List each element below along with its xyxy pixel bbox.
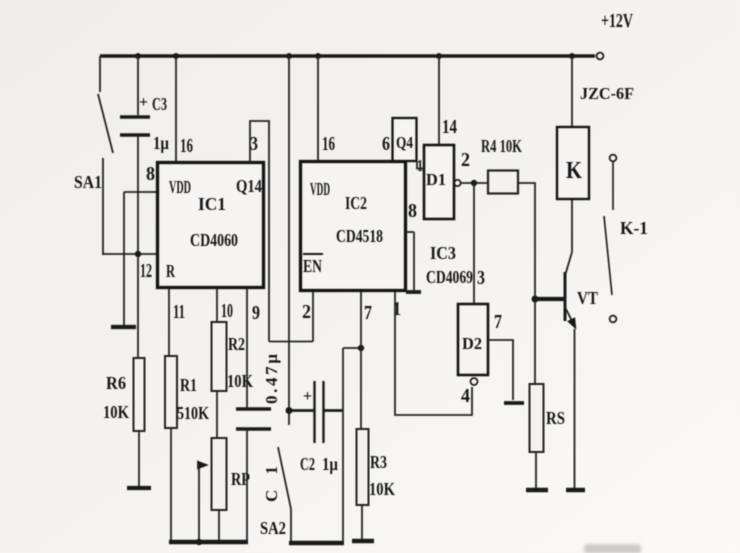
wire IC2 pin 7	[361, 291, 372, 429]
ground D2 pin7	[504, 401, 524, 405]
op-amp IC2 CD4518 box	[301, 162, 406, 291]
svg-text:10: 10	[221, 300, 233, 322]
transistor VT	[535, 199, 598, 488]
svg-text:R2: R2	[228, 334, 245, 354]
svg-text:R: R	[166, 261, 176, 281]
label IC3 CD4069	[426, 243, 473, 287]
wire R2 to RP	[216, 391, 218, 438]
svg-text:R6: R6	[106, 373, 126, 393]
resistor R5	[530, 384, 566, 452]
wire IC2 pin 8 to ground	[406, 200, 417, 290]
wire IC1 pin 8 to ground	[124, 163, 157, 326]
wire D2 pin 7 to ground	[488, 311, 513, 400]
resistor R6 10K	[103, 358, 145, 431]
svg-text:SA1: SA1	[74, 172, 102, 192]
wire IC1 pin 10	[217, 288, 233, 322]
svg-text:C3: C3	[152, 94, 167, 114]
svg-text:D2: D2	[462, 334, 482, 353]
svg-text:+: +	[303, 388, 312, 405]
wire R6 to ground	[138, 431, 140, 486]
svg-text:2: 2	[302, 301, 311, 323]
svg-text:IC2: IC2	[345, 193, 367, 213]
wire IC1 pin 16 VDD	[176, 56, 193, 162]
svg-text:Q4: Q4	[396, 133, 413, 152]
svg-text:1: 1	[393, 298, 401, 320]
svg-text:7: 7	[494, 311, 502, 333]
wire D1 out pin 2	[461, 149, 488, 186]
wire Q4 to D1 pin 1	[417, 156, 424, 175]
resistor R4 10K	[481, 136, 522, 194]
svg-text:D1: D1	[426, 170, 446, 189]
wire D1 pin 14	[439, 56, 457, 145]
svg-text:VDD: VDD	[310, 179, 330, 199]
ground IC2 pin 8	[406, 290, 421, 294]
wire bottom-middle rail	[289, 541, 344, 545]
svg-text:16: 16	[180, 135, 193, 157]
svg-text:510K: 510K	[177, 403, 209, 423]
svg-text:RS: RS	[546, 408, 565, 428]
svg-text:CD4518: CD4518	[336, 226, 383, 246]
wire IC1 pin 12	[102, 251, 157, 282]
wire IC1 pin 3 Q14 loop to IC2 pin 2	[250, 121, 269, 342]
svg-text:3: 3	[477, 267, 485, 289]
svg-text:IC1: IC1	[198, 194, 226, 214]
node base junction	[532, 296, 539, 303]
svg-text:R1: R1	[180, 375, 197, 395]
svg-text:3: 3	[250, 133, 258, 155]
svg-text:10K: 10K	[227, 371, 253, 391]
watermark bottom right	[584, 544, 641, 553]
svg-text:R3: R3	[370, 452, 387, 472]
op-amp IC1 CD4060 box	[158, 163, 264, 288]
svg-text:1µ: 1µ	[322, 454, 339, 474]
wire R4 to base node	[518, 183, 535, 299]
ground VT emitter	[566, 488, 585, 492]
ground bar SA1/pin8	[111, 325, 136, 329]
svg-text:EN: EN	[303, 256, 322, 276]
capacitor C1 0.47µ	[236, 354, 281, 502]
svg-text:8: 8	[408, 200, 417, 222]
svg-text:VT: VT	[577, 288, 598, 308]
svg-text:14: 14	[442, 116, 457, 138]
svg-text:2: 2	[461, 149, 470, 171]
node +12V terminal	[597, 10, 634, 59]
wire RP bottom	[218, 510, 220, 542]
wire top +12V rail	[100, 53, 595, 59]
svg-text:11: 11	[173, 301, 185, 323]
wire bottom-left rail	[169, 539, 248, 545]
relay K JZC-6F	[557, 56, 634, 199]
svg-text:8: 8	[146, 163, 155, 185]
wire R3 to ground	[361, 505, 363, 539]
svg-text:CD4069: CD4069	[426, 267, 473, 287]
svg-text:IC3: IC3	[430, 243, 456, 263]
switch SA2	[260, 447, 291, 542]
wire C1 to bottom rail	[246, 429, 248, 542]
wire IC2 pin 16 VDD	[318, 56, 335, 161]
switch SA1	[74, 56, 113, 255]
potentiometer RP	[199, 438, 250, 542]
svg-text:1: 1	[417, 156, 423, 175]
svg-text:VDD: VDD	[169, 177, 191, 197]
svg-text:12: 12	[140, 260, 152, 282]
ground R6	[127, 486, 151, 490]
capacitor C2 1µ	[289, 381, 343, 474]
wire D1 out to D2 in pin 3	[474, 183, 485, 304]
wire IC1 pin 11	[169, 288, 185, 356]
node Q4 output box pin 6	[382, 118, 417, 161]
inverter D2	[458, 304, 488, 407]
wire IC1 pin 9	[247, 288, 260, 408]
svg-text:1µ: 1µ	[153, 133, 170, 153]
svg-text:K-1: K-1	[620, 218, 648, 238]
svg-text:Q14: Q14	[236, 176, 262, 196]
wire R1 to bottom rail	[170, 428, 172, 542]
wire +12V drop to C2 node	[288, 56, 290, 425]
svg-text:R4 10K: R4 10K	[481, 136, 522, 156]
ground R5	[526, 488, 548, 492]
svg-text:JZC-6F: JZC-6F	[580, 84, 634, 103]
svg-text:4: 4	[461, 385, 470, 407]
svg-text:SA2: SA2	[260, 518, 286, 538]
svg-text:K: K	[566, 158, 582, 184]
svg-text:0.47µ: 0.47µ	[262, 354, 281, 404]
svg-text:6: 6	[382, 133, 390, 155]
wire C3 to R6 through pin12 node	[137, 135, 139, 359]
svg-text:+: +	[139, 94, 148, 111]
resistor R1 510K	[165, 356, 209, 428]
svg-text:C2: C2	[300, 454, 315, 474]
wire R5 to ground	[535, 452, 537, 488]
svg-text:CD4060: CD4060	[190, 230, 238, 250]
resistor R3 10K	[357, 429, 396, 505]
wire IC2 pin 1 to D2 pin 4	[393, 291, 472, 415]
relay contact K-1	[604, 155, 648, 323]
node C2 plus junction	[286, 407, 293, 414]
svg-text:7: 7	[364, 302, 372, 324]
svg-text:10K: 10K	[103, 402, 129, 422]
resistor R2 10K	[212, 322, 254, 391]
svg-text:10K: 10K	[369, 479, 395, 499]
svg-text:9: 9	[252, 302, 260, 324]
wire IC2 pin 2	[269, 291, 313, 342]
wire base node to R5	[534, 299, 536, 384]
svg-text:16: 16	[322, 133, 335, 155]
capacitor C3 1µ	[120, 56, 170, 153]
wire pin7 node down to rail	[343, 345, 364, 543]
inverter D1	[424, 145, 461, 219]
svg-text:+12V: +12V	[601, 10, 633, 32]
ground R3	[352, 539, 374, 543]
